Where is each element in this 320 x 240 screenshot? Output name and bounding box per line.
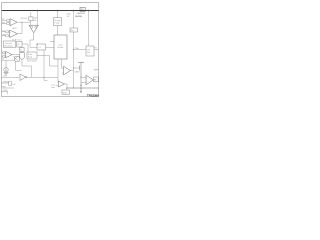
- node: junction lower on Q1 source line: [80, 85, 81, 86]
- wire: charge pump to control logic: [57, 26, 59, 36]
- op-amp A1: [10, 19, 17, 27]
- wire: left pin row 2: [2, 82, 10, 84]
- svg-text:PGb: PGb: [75, 48, 79, 50]
- node: junction on bottom rail: [80, 87, 81, 88]
- wire: A3 input +: [2, 52, 6, 54]
- charge pump box: [54, 18, 62, 26]
- resistor R9 vertical at bottom-left: [9, 81, 11, 85]
- comparator A6: [86, 75, 93, 85]
- wire: A4 input 2 stub: [62, 72, 64, 74]
- box: A6 output box: [94, 77, 99, 82]
- svg-text:Amp: Amp: [28, 56, 32, 59]
- wire: A5 lower input stub: [56, 85, 59, 87]
- op-amp A4 gate driver: [64, 66, 71, 75]
- node: rail junction at x57.5: [57, 10, 59, 12]
- wire: A2 input -: [2, 35, 10, 37]
- wire: A1 input +: [2, 20, 10, 22]
- resistor R4 on A2 - input: [6, 35, 9, 37]
- svg-text:VM: VM: [2, 22, 5, 24]
- wire: A6 input upper: [81, 76, 86, 78]
- box: reference above gate: [20, 48, 25, 52]
- box: UVLO small box: [17, 42, 23, 48]
- wire: A1 output: [17, 21, 31, 23]
- svg-text:GND: GND: [3, 90, 8, 92]
- svg-text:+: +: [86, 78, 87, 80]
- wire: logic down to A5: [57, 59, 59, 83]
- current source I1: [4, 68, 8, 72]
- wire: stub into control logic upper: [50, 41, 54, 43]
- buffer T1 (down-pointing driver): [29, 25, 38, 33]
- wire: box A to control logic: [46, 46, 54, 48]
- wire: A6 input lower: [81, 82, 86, 84]
- svg-text:VREG: VREG: [3, 81, 9, 83]
- node: junction on reference line: [73, 49, 74, 50]
- wire: rail to T1 top: [36, 11, 38, 26]
- wire: top VDD rail: [2, 10, 99, 12]
- wire: left pin row 4: [2, 92, 8, 95]
- oscillator buffer G2: [20, 74, 27, 81]
- node: junction osc line: [43, 77, 44, 78]
- svg-text:ACS: ACS: [13, 27, 18, 30]
- thermal shutdown box: [4, 41, 16, 48]
- wire: rail down to R6: [73, 11, 75, 29]
- wire: gate drive horizontal: [74, 67, 80, 69]
- wire: A1 input -: [2, 23, 10, 25]
- node: rail junction at x73.5: [73, 10, 75, 12]
- wire: G1 down and over: [22, 59, 32, 77]
- svg-text:−: −: [86, 82, 87, 84]
- op-amp A3: [6, 51, 13, 58]
- multiplier M1: [13, 56, 21, 70]
- wire: A5 output elbow to bottom rail: [65, 84, 68, 88]
- wire: box C output to border: [94, 49, 99, 51]
- wire: A3 input -: [2, 56, 6, 58]
- svg-text:CM: CM: [2, 34, 5, 36]
- svg-text:+: +: [6, 53, 7, 55]
- wire: oscillator output: [27, 76, 58, 78]
- svg-text:TPS2390: TPS2390: [87, 93, 99, 97]
- box A: timer box: [37, 44, 46, 50]
- resistor R7 on A3 + input: [3, 52, 5, 54]
- svg-text:VSENSE: VSENSE: [77, 13, 86, 15]
- node: border pin dots: [1, 77, 2, 78]
- wire: A3 output: [12, 54, 19, 56]
- node: junction Q1 source / A6: [80, 76, 81, 77]
- wire: left pin to oscillator: [2, 76, 20, 78]
- wire: left pin row 3: [2, 87, 14, 89]
- wire: control logic to box C: [74, 49, 87, 51]
- svg-text:ILIM: ILIM: [63, 92, 67, 94]
- wire: R6 down to gate node: [73, 32, 75, 88]
- box: ILIM box: [62, 90, 70, 94]
- svg-text:Out: Out: [87, 48, 91, 51]
- svg-text:Control: Control: [57, 46, 64, 49]
- wire: I1 to ground: [5, 60, 7, 67]
- wire: Q1 drain-source vertical: [80, 62, 82, 88]
- svg-text:Vout Clamp: Vout Clamp: [27, 60, 37, 63]
- svg-text:Error: Error: [28, 53, 33, 56]
- svg-text:−: −: [10, 36, 11, 38]
- box B: error amp box: [27, 52, 37, 59]
- wire: logic to A4 input 1: [62, 59, 64, 68]
- wire: T1 apex down and over to box A: [30, 33, 37, 48]
- transistor Q1 gate bar: [79, 65, 81, 70]
- wire: rail down to box C: [88, 11, 90, 47]
- wire: A2 output elbow up to A1 output line: [18, 22, 23, 34]
- wire: charge pump feed from rail: [57, 11, 59, 18]
- wire: reference box into gate G1: [21, 52, 23, 54]
- op-amp A5 current limit: [59, 81, 65, 87]
- svg-text:Drv: Drv: [87, 51, 90, 54]
- gate G1 (down bullet): [20, 53, 25, 60]
- svg-text:Shutdown: Shutdown: [4, 45, 13, 48]
- node: junction A5 output on rail: [66, 87, 67, 88]
- node: gate node junction: [73, 67, 74, 68]
- schematic border frame: [2, 3, 99, 97]
- svg-text:UVLO: UVLO: [17, 39, 22, 41]
- node: junction gate line on bottom rail: [73, 87, 74, 88]
- wire: load current arrow below bottom rail: [80, 88, 82, 92]
- svg-text:−: −: [10, 24, 11, 26]
- resistor R6: [70, 28, 78, 32]
- capacitor C1 top plate: [78, 61, 84, 63]
- wire: bottom sense rail: [67, 87, 99, 89]
- svg-text:GATE: GATE: [75, 70, 81, 73]
- resistor R5 from rail: [29, 12, 33, 25]
- resistor R8 on A3 - input: [3, 56, 5, 58]
- wire: I1 to multiplier: [2, 59, 14, 61]
- ground: [4, 73, 9, 77]
- node: rail junction at x36.5: [37, 10, 39, 12]
- wire: box B output elbow: [37, 56, 58, 67]
- svg-text:+: +: [10, 21, 11, 23]
- wire: A2 input +: [2, 31, 10, 33]
- wire: ILIM box stub: [66, 88, 68, 90]
- svg-text:Ref: Ref: [71, 30, 74, 32]
- svg-text:Charge: Charge: [54, 19, 60, 22]
- svg-text:Limit: Limit: [51, 86, 55, 89]
- resistor R2 on A1 - input: [7, 23, 10, 25]
- node: summing junction: [21, 22, 22, 23]
- svg-text:VREF: VREF: [94, 69, 100, 71]
- wire: UV box to box B input: [22, 44, 28, 52]
- resistor R3 on A2 + input: [6, 31, 9, 33]
- wire: A5 lower input from timer line: [44, 50, 48, 80]
- svg-text:+: +: [10, 32, 11, 34]
- box C: gate output box: [86, 46, 94, 56]
- control logic box: [54, 35, 67, 59]
- resistor R1 on A1 + input: [7, 20, 10, 22]
- svg-text:−: −: [6, 56, 7, 58]
- svg-text:SENSE: SENSE: [75, 16, 83, 18]
- op-amp A2: [10, 30, 18, 38]
- svg-text:Tmr: Tmr: [38, 46, 42, 49]
- svg-text:250 kΩ: 250 kΩ: [21, 18, 28, 20]
- node: rail junction at x88.5: [88, 10, 90, 12]
- svg-text:Pump: Pump: [55, 22, 60, 24]
- resistor RS (sense resistor on rail): [79, 7, 86, 11]
- wire: A4 output to gate node: [71, 70, 74, 72]
